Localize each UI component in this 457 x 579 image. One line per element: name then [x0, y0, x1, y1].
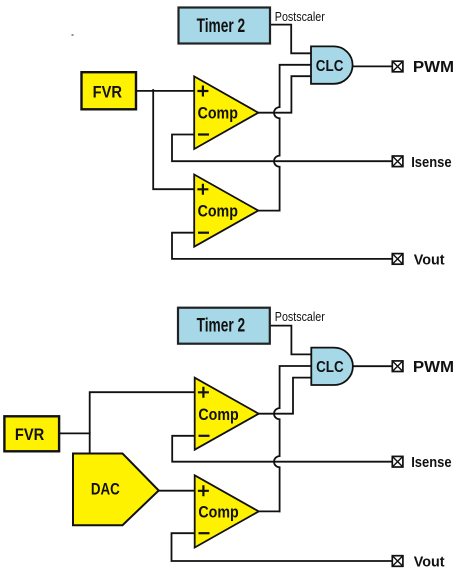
svg-text:Isense: Isense	[411, 454, 451, 471]
svg-text:Comp: Comp	[198, 203, 238, 221]
svg-text:FVR: FVR	[15, 425, 44, 444]
svg-text:PWM: PWM	[413, 59, 454, 76]
svg-text:Postscaler: Postscaler	[275, 310, 325, 324]
svg-text:Vout: Vout	[414, 251, 445, 268]
svg-text:Timer 2: Timer 2	[197, 316, 246, 337]
svg-text:FVR: FVR	[93, 82, 122, 101]
svg-text:Timer 2: Timer 2	[197, 16, 246, 37]
svg-text:Isense: Isense	[411, 154, 451, 171]
svg-text:CLC: CLC	[316, 58, 344, 75]
svg-text:PWM: PWM	[413, 359, 454, 376]
svg-text:CLC: CLC	[316, 359, 344, 376]
svg-text:Comp: Comp	[198, 504, 238, 522]
svg-text:Comp: Comp	[198, 406, 238, 424]
svg-text:Postscaler: Postscaler	[275, 10, 325, 24]
svg-text:DAC: DAC	[91, 480, 120, 499]
svg-text:Vout: Vout	[414, 553, 445, 570]
svg-text:Comp: Comp	[198, 104, 238, 122]
